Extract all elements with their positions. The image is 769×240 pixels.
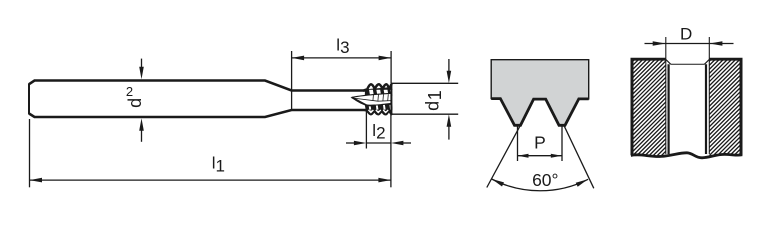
thick thread flank profile line [491,99,589,126]
60-degree arc [492,179,588,191]
svg-text:l3: l3 [336,35,349,57]
block right edge [740,58,743,155]
svg-text:2: 2 [126,84,133,99]
dimension l1: extension lines, line, arrows, label [29,119,31,187]
mask right of head edge [393,85,398,114]
60-degree construction line left [487,126,520,188]
dimension d2: arrow line + label [141,59,143,68]
tool body: shank outline [29,81,366,91]
hatching right block [615,60,769,156]
60-degree construction line right [564,126,594,188]
thread major diameter thin lines [665,37,667,154]
dimension D: line, arrows, label [645,43,734,45]
svg-text:d: d [125,98,145,108]
head right end edge [390,84,392,115]
flute lower cutting edge (thick) [352,97,375,105]
svg-text:d1: d1 [423,90,446,111]
chamfer right [704,60,709,65]
svg-text:D: D [680,24,692,43]
top thread zigzag [364,84,392,90]
bottom break (wavy) line [631,153,743,158]
bottom thread zigzag [365,110,391,114]
cutter head: black pocket below flute [365,103,392,112]
tool left end edge [28,84,30,115]
bottom teeth inner white notches [368,110,373,113]
dimension l2: extension lines, line, arrows, label [365,111,367,149]
thread profile workpiece (gray) [491,60,589,126]
hole minor diameter walls [667,64,669,154]
dimension P: extension lines, line, arrows, label [517,127,519,162]
dimension l3: extension lines, line, arrows, label [291,51,293,111]
thread ribs below flute [368,104,371,110]
svg-text:l2: l2 [372,121,385,143]
svg-text:P: P [534,132,546,152]
dimension d1: extension lines, arrows, label [391,82,458,84]
svg-text:l1: l1 [212,154,225,176]
block top edge [631,58,666,61]
svg-text:60°: 60° [532,170,558,190]
flute (helical cutting edge window) [352,93,392,105]
cutter head: black pocket above flute [365,87,392,96]
chamfer bottom line [671,63,705,65]
thread ribs above flute [369,89,375,95]
flute internal rib lines [353,98,392,101]
block left edge [631,58,634,155]
chamfer left [666,60,671,65]
